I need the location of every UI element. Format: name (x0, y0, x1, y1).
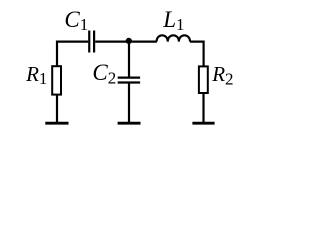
ground under R1 (45, 122, 68, 125)
capacitor C2 (118, 78, 140, 83)
svg-text:C2: C2 (92, 60, 116, 88)
svg-text:C1: C1 (64, 7, 88, 34)
wire : junction dot down to C2 (128, 41, 130, 77)
svg-text:L1: L1 (162, 7, 184, 34)
wire : R2 to ground (202, 93, 204, 122)
resistor R2 (199, 66, 208, 93)
wire : R1 to ground (56, 95, 58, 122)
wire : inductor to right corner down to R2 (190, 42, 204, 67)
inductor L1 (157, 35, 190, 41)
node junction dot (126, 38, 132, 44)
svg-text:R1: R1 (25, 62, 47, 88)
wire : left corner from R1 up and across to C1 left plate (57, 42, 88, 66)
resistor R1 (52, 66, 61, 94)
svg-text:R2: R2 (211, 62, 233, 89)
wire : C1 right plate to inductor L1 (95, 40, 157, 42)
ground under R2 (192, 122, 214, 125)
wire : C2 to ground (128, 83, 130, 122)
capacitor C1 (89, 31, 94, 53)
ground under C2 (118, 122, 141, 125)
